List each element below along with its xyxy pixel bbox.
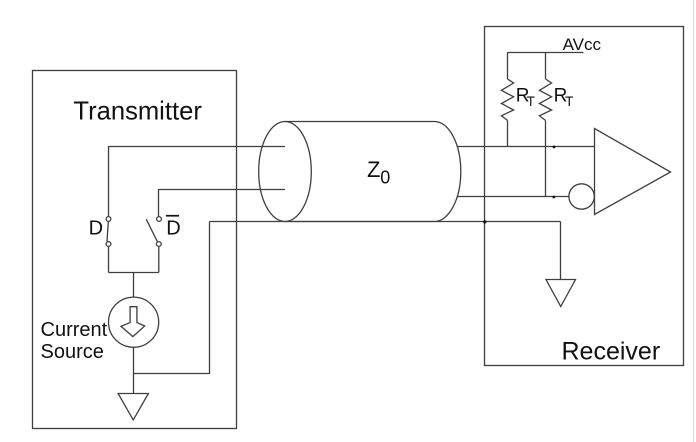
svg-text:Z: Z xyxy=(367,157,380,182)
switch Dbar upper contact xyxy=(157,217,162,222)
svg-text:Current: Current xyxy=(41,319,108,341)
wire current source to ground xyxy=(133,347,135,393)
transmitter box xyxy=(33,71,237,429)
wire W1 right (line to comparator +) xyxy=(457,146,595,148)
transmission line right end arc xyxy=(435,122,461,222)
wire W2 lower signal (switch Dbar to line) xyxy=(159,190,286,217)
wire below switch D xyxy=(108,246,110,272)
svg-text:D: D xyxy=(166,218,180,240)
receiver box xyxy=(485,27,684,366)
return wire (bottom long wire) xyxy=(210,221,561,223)
svg-text:T: T xyxy=(527,94,535,109)
wire joining switches xyxy=(109,272,159,274)
svg-text:Receiver: Receiver xyxy=(562,337,661,365)
switch Dbar blade (open) xyxy=(146,219,157,241)
junction dot W2/RT2 xyxy=(552,196,555,199)
wire to current source xyxy=(133,273,135,298)
ground (receiver) xyxy=(546,280,576,307)
junction dot at receiver box edge xyxy=(483,220,486,223)
wire RT2 to W2 xyxy=(545,120,547,196)
frame right border xyxy=(693,0,695,442)
svg-text:D: D xyxy=(89,218,103,240)
wire AVcc to RT1 xyxy=(507,53,509,80)
switch Dbar lower contact xyxy=(156,242,161,247)
wire down to receiver ground xyxy=(560,222,562,280)
svg-text:0: 0 xyxy=(380,167,390,187)
resistor RT1 xyxy=(501,79,513,120)
comparator U1 inverting bubble xyxy=(569,184,594,209)
wire RT1 to W1 xyxy=(507,120,509,146)
svg-text:Source: Source xyxy=(41,341,104,363)
switch D lower contact xyxy=(106,242,111,247)
ground (transmitter) xyxy=(118,394,148,421)
svg-text:T: T xyxy=(565,94,573,109)
transmission line body bottom xyxy=(285,221,435,223)
switch D upper contact xyxy=(106,217,111,222)
current source arrow xyxy=(121,307,145,337)
wire W1 top signal (switch D to line) xyxy=(109,147,286,217)
svg-text:AVcc: AVcc xyxy=(563,35,602,54)
transmission line body top xyxy=(285,121,435,123)
current source I1 circle xyxy=(109,297,159,347)
wire below switch Dbar xyxy=(158,246,160,272)
wire AVcc to RT2 xyxy=(545,53,547,80)
wire junction to return line xyxy=(134,222,210,374)
wire W2 right (line to comparator bubble) xyxy=(457,196,569,198)
svg-text:Transmitter: Transmitter xyxy=(73,98,202,126)
transmission line left ellipse xyxy=(259,122,312,222)
resistor RT2 xyxy=(539,79,551,120)
AVcc rail wire xyxy=(508,52,584,54)
switch D blade xyxy=(107,222,108,242)
comparator U1 triangle xyxy=(595,129,671,215)
junction dot W1/RT2 xyxy=(553,146,556,149)
